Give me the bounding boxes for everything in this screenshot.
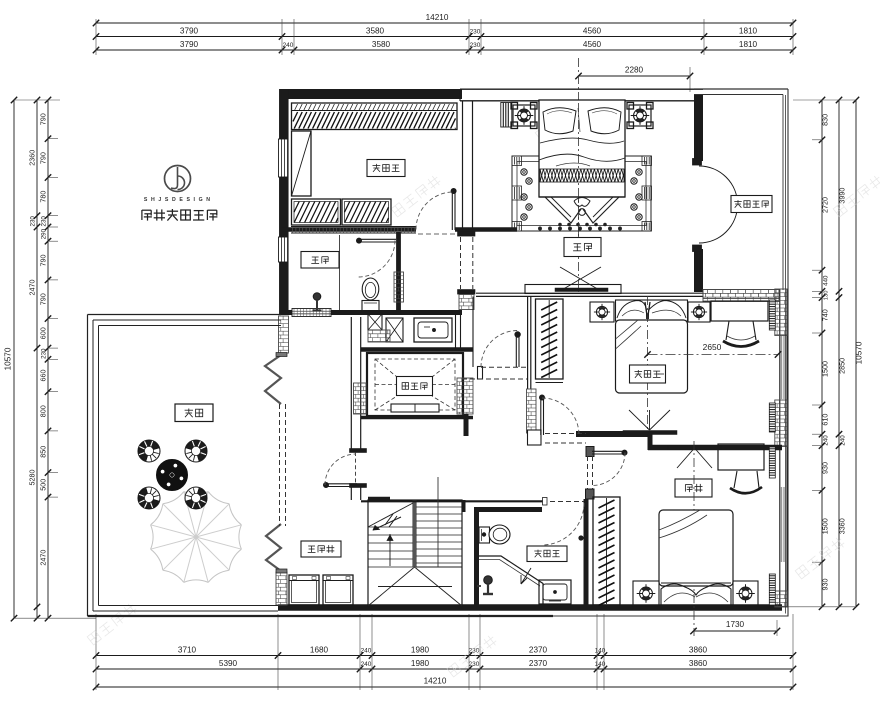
- shaft box small: [368, 314, 382, 330]
- svg-text:240: 240: [283, 42, 294, 49]
- window block right wall 2: [769, 403, 775, 432]
- wall master bedroom bottom: [476, 293, 703, 296]
- terrace door dashed track: [280, 404, 286, 526]
- dimension chain bottom row 2: [93, 659, 796, 672]
- window left wall upper: [279, 139, 289, 177]
- dimension chain bottom row overall 14210: [93, 677, 796, 691]
- frontyard nightstand left: [633, 581, 659, 606]
- lobby opening cap bottom: [458, 290, 476, 295]
- dimension chain top row 2: [93, 27, 796, 40]
- wall cloakroom right double line: [463, 101, 473, 232]
- hall dashed opening to lower hall: [462, 367, 528, 379]
- window glazing right lower: [782, 487, 785, 562]
- wall hall west line: [472, 297, 474, 368]
- svg-text:230: 230: [469, 661, 480, 668]
- svg-text:10570: 10570: [4, 347, 13, 370]
- master bed base line: [539, 196, 625, 198]
- window block right wall 4: [769, 574, 775, 605]
- extension lines left: [14, 100, 96, 618]
- master bath partition line: [339, 235, 341, 310]
- hatched wall master bath right: [394, 272, 404, 302]
- door leaf bedroom2: [515, 332, 521, 367]
- svg-text:3790: 3790: [180, 27, 199, 36]
- window glazing right upper: [782, 336, 785, 399]
- svg-text:2370: 2370: [529, 646, 548, 655]
- door arc hall south: [542, 398, 579, 435]
- svg-text:3790: 3790: [180, 40, 199, 49]
- logo text Shanghai Jingshe Design: [142, 209, 218, 221]
- extension lines right: [782, 100, 856, 607]
- window stripes above balcony door: [695, 133, 700, 158]
- master bed rug: [512, 156, 652, 231]
- svg-text:2370: 2370: [529, 659, 548, 668]
- svg-text:780: 780: [39, 191, 48, 203]
- svg-text:610: 610: [821, 414, 830, 426]
- watermark text: [87, 98, 880, 678]
- balcony door posts: [693, 159, 702, 252]
- svg-text:930: 930: [821, 462, 830, 474]
- centerline master bedroom: [578, 58, 580, 292]
- svg-text:740: 740: [821, 309, 830, 321]
- svg-text:3990: 3990: [838, 188, 847, 204]
- dimension 2280 master bed centerline: [575, 66, 693, 93]
- room label laundry: [301, 541, 341, 557]
- lobby opening dashes: [461, 237, 473, 289]
- hatched pier laundry: [276, 572, 287, 605]
- door arc frontyard: [592, 453, 625, 486]
- cloakroom top wardrobe: [292, 103, 458, 130]
- vanity sink corridor: [414, 318, 452, 342]
- stairs winders: [368, 567, 462, 606]
- room label leisure balcony: [731, 196, 772, 213]
- wall post frontyard nw: [586, 447, 594, 457]
- bedroom2 tv stand: [629, 410, 670, 430]
- logo SHJS DESIGN emblem: [144, 166, 211, 204]
- balcony bottom brick wall: [703, 290, 779, 302]
- hatched wall pier hall north: [459, 295, 474, 310]
- wall cloakroom bottom: [282, 227, 517, 232]
- bedroom2 nightstand left: [590, 302, 614, 322]
- wall bathroom left: [474, 507, 479, 606]
- wall right exterior: [780, 289, 787, 608]
- hatched pier right wall upper: [775, 289, 788, 336]
- hatched wall below balcony: [703, 290, 779, 299]
- cloakroom door leaf: [451, 188, 456, 230]
- cloakroom left closet: [292, 131, 312, 196]
- svg-text:2360: 2360: [28, 150, 37, 166]
- wall post hall sw: [478, 367, 483, 380]
- wall master bath right: [396, 232, 401, 312]
- svg-text:3860: 3860: [689, 646, 708, 655]
- window block master top wall: [501, 103, 512, 128]
- cloakroom lower wardrobe left: [292, 199, 341, 225]
- wall stairs east stub: [463, 500, 466, 512]
- wall bedroom2 bottom: [576, 431, 652, 437]
- wall above elevator: [361, 347, 473, 352]
- room label terrace: [175, 404, 213, 422]
- hatched wall laundry right: [354, 383, 367, 414]
- dashed opening hall south: [545, 434, 586, 444]
- toilet master bath: [362, 278, 379, 311]
- elevator inner dashed: [375, 359, 455, 410]
- washing machine right: [323, 575, 353, 605]
- frontyard desk: [718, 444, 764, 470]
- dashed opening frontyard west: [588, 456, 593, 489]
- svg-text:230: 230: [470, 29, 481, 36]
- frontyard tv bar: [668, 446, 721, 450]
- centerline bedroom2: [647, 296, 649, 434]
- svg-text:10570: 10570: [855, 341, 864, 364]
- frontyard tv stand: [677, 448, 712, 468]
- svg-text:1810: 1810: [739, 27, 758, 36]
- svg-text:4560: 4560: [583, 27, 602, 36]
- extension lines bottom: [96, 614, 793, 690]
- svg-text:230: 230: [41, 348, 48, 359]
- stairs up arrow: [373, 514, 401, 566]
- svg-text:440: 440: [823, 275, 830, 286]
- svg-text:1980: 1980: [411, 646, 430, 655]
- shower head master bath: [313, 293, 322, 311]
- door leaf frontyard: [592, 450, 627, 455]
- wall corner box hall south: [528, 430, 542, 445]
- window stripes below balcony door: [695, 252, 700, 277]
- room label frontyard: [675, 479, 712, 497]
- svg-text:4560: 4560: [583, 40, 602, 49]
- room label bedroom2: [630, 365, 666, 383]
- bedroom2 bed body: [616, 320, 688, 393]
- corridor dashed lintel: [418, 233, 458, 235]
- room label bathroom: [527, 546, 567, 562]
- cloakroom lower wardrobe right: [342, 199, 391, 225]
- hatched wall corridor west: [279, 316, 289, 353]
- dimension chain top row overall 14210: [93, 13, 796, 26]
- svg-text:1500: 1500: [821, 518, 830, 534]
- svg-text:1980: 1980: [411, 659, 430, 668]
- master bed body: [539, 100, 625, 197]
- hatched pier right wall middle: [775, 400, 788, 447]
- svg-text:2470: 2470: [39, 550, 48, 566]
- sink bathroom: [539, 580, 571, 604]
- svg-text:5280: 5280: [28, 470, 37, 486]
- wall post frontyard w: [586, 489, 595, 499]
- svg-text:14210: 14210: [424, 677, 447, 686]
- balcony double door arcs: [699, 166, 738, 243]
- room label master bedroom: [564, 238, 601, 257]
- wall frontyard top: [648, 445, 782, 451]
- svg-text:230: 230: [470, 42, 481, 49]
- window left wall lower: [279, 237, 289, 262]
- shaft box large: [386, 318, 403, 342]
- svg-text:240: 240: [361, 661, 372, 668]
- svg-text:3580: 3580: [372, 40, 391, 49]
- wall bottom exterior: [278, 604, 782, 611]
- window master bath bottom wall: [292, 309, 331, 317]
- svg-text:290: 290: [41, 228, 48, 239]
- master bed nightstand left: [511, 103, 537, 129]
- lobby opening cap top: [458, 232, 476, 237]
- svg-text:1500: 1500: [821, 361, 830, 377]
- bedroom2 nightstand right: [688, 302, 710, 322]
- dashed lintel bathroom door: [542, 501, 584, 503]
- dimension chain left middle: [28, 97, 41, 622]
- svg-text:790: 790: [39, 255, 48, 267]
- wall step joint: [648, 434, 653, 450]
- washing machine left: [289, 575, 319, 605]
- svg-text:830: 830: [821, 114, 830, 126]
- svg-text:S H J S D E S I G N: S H J S D E S I G N: [144, 197, 211, 203]
- wall hall lower stub: [464, 414, 469, 436]
- terrace chair nw: [138, 440, 160, 462]
- wall master bath bottom: [280, 310, 462, 315]
- svg-text:600: 600: [39, 327, 48, 339]
- svg-text:3360: 3360: [838, 518, 847, 534]
- hatched pier elevator right: [457, 378, 473, 414]
- frontyard bed body: [659, 510, 733, 586]
- bedroom2 bed headboard: [616, 300, 688, 321]
- svg-text:1810: 1810: [739, 40, 758, 49]
- shower head bathroom: [477, 576, 493, 594]
- svg-text:240: 240: [823, 435, 830, 446]
- svg-text:3860: 3860: [689, 659, 708, 668]
- svg-text:500: 500: [39, 479, 48, 491]
- shower bathroom: [479, 556, 543, 605]
- stairs treads: [368, 500, 462, 606]
- dimension chain right overall 10570: [853, 97, 864, 610]
- wall sink nook east: [456, 315, 461, 348]
- frontyard wardrobe: [593, 497, 620, 606]
- svg-text:240: 240: [840, 435, 847, 446]
- wall bathroom top: [474, 507, 542, 512]
- wall top exterior filled: [282, 89, 462, 99]
- dimension chain left inner: [39, 97, 52, 622]
- door arc bedroom2: [481, 331, 518, 368]
- tv niche master bedroom: [525, 267, 621, 294]
- dimension chain right middle: [836, 97, 847, 610]
- elevator shaft bottom line: [361, 416, 473, 420]
- svg-text:240: 240: [361, 648, 372, 655]
- bedroom2 wardrobe: [536, 299, 564, 383]
- balcony outer wall lines: [694, 89, 788, 290]
- wall top exterior band: [460, 89, 703, 101]
- wall laundry right: [350, 317, 367, 500]
- dimension chain top row 3: [93, 40, 796, 53]
- master bath door leaf: [356, 238, 396, 243]
- frontyard chair: [730, 471, 762, 493]
- master bed blanket: [539, 138, 625, 166]
- cloakroom sliding track: [291, 227, 416, 234]
- dimension chain left overall 10570: [4, 97, 18, 622]
- svg-text:1680: 1680: [310, 646, 329, 655]
- dimension 2650 bedroom2: [644, 342, 781, 358]
- bedroom2 chair: [723, 321, 759, 347]
- svg-text:850: 850: [39, 446, 48, 458]
- terrace chair sw: [138, 487, 160, 509]
- window block right wall 3: [769, 447, 775, 478]
- wall stairs top: [361, 498, 547, 506]
- svg-text:790: 790: [39, 152, 48, 164]
- terrace umbrella: [151, 492, 242, 583]
- laundry door leaf: [323, 482, 357, 487]
- stairs guard line: [437, 477, 439, 567]
- svg-text:2720: 2720: [821, 197, 830, 213]
- extension lines top: [96, 19, 793, 55]
- centerline frontyard: [693, 441, 695, 636]
- master bed bench crosshatch: [540, 169, 625, 182]
- svg-text:2470: 2470: [28, 280, 37, 296]
- terrace chair se: [185, 487, 207, 509]
- svg-text:790: 790: [39, 293, 48, 305]
- master bed nightstand right: [627, 103, 653, 129]
- room label cloakroom: [367, 160, 405, 177]
- room label master bath: [301, 252, 339, 269]
- outline setback right and bottom: [88, 89, 789, 616]
- dimension chain bottom row 1: [93, 646, 796, 659]
- wall bathroom right: [584, 499, 589, 606]
- svg-text:2650: 2650: [703, 342, 722, 352]
- door arc bathroom: [542, 503, 584, 545]
- terrace folding door zigzag lower: [266, 524, 287, 573]
- wall left exterior: [279, 89, 289, 315]
- cloakroom door arc: [416, 192, 454, 230]
- svg-text:3710: 3710: [178, 646, 197, 655]
- terrace boundary lines: [88, 315, 554, 617]
- elevator perspective lines: [375, 359, 455, 410]
- wall master bedroom to balcony: [694, 95, 703, 292]
- frontyard bed footboard: [661, 583, 731, 605]
- svg-text:660: 660: [39, 370, 48, 382]
- window block right wall 1: [769, 300, 775, 330]
- master bed pillows: [543, 108, 621, 134]
- bedroom2 desk: [711, 301, 768, 321]
- elevator shaft outline: [367, 353, 463, 416]
- terrace chair ne: [185, 440, 207, 462]
- svg-text:230: 230: [30, 216, 37, 227]
- master bed footboard ornament: [545, 197, 619, 226]
- master bath door arc: [358, 241, 395, 278]
- svg-text:130: 130: [824, 291, 830, 301]
- tv master bedroom: [555, 288, 608, 292]
- bedroom2 tv bar: [623, 431, 677, 435]
- hatched wall below shafts: [368, 330, 390, 342]
- svg-text:2850: 2850: [838, 358, 847, 374]
- svg-text:230: 230: [41, 216, 48, 227]
- dimension 1730 bed centerline to wall: [690, 620, 780, 636]
- dimension chain right inner: [819, 97, 830, 610]
- centerline master bed overlay: [578, 103, 580, 236]
- elevator door: [391, 404, 439, 412]
- hatched pier right wall lower: [775, 591, 788, 607]
- terrace folding door zigzag upper: [265, 353, 287, 405]
- svg-text:5390: 5390: [219, 659, 238, 668]
- laundry door arc: [325, 454, 356, 485]
- svg-text:930: 930: [821, 579, 830, 591]
- svg-text:800: 800: [39, 405, 48, 417]
- svg-text:2280: 2280: [625, 66, 644, 75]
- svg-text:790: 790: [39, 113, 48, 125]
- svg-text:1730: 1730: [726, 620, 745, 629]
- toilet bathroom: [479, 525, 510, 544]
- frontyard nightstand right: [733, 581, 758, 606]
- svg-text:14210: 14210: [426, 13, 449, 22]
- terrace table: [157, 460, 188, 491]
- hatched wall bedroom2 left: [527, 389, 537, 433]
- room label elevator: [397, 377, 433, 396]
- door leaf hall south: [539, 395, 544, 435]
- svg-text:3580: 3580: [366, 27, 385, 36]
- wall bedroom2 left: [528, 296, 531, 389]
